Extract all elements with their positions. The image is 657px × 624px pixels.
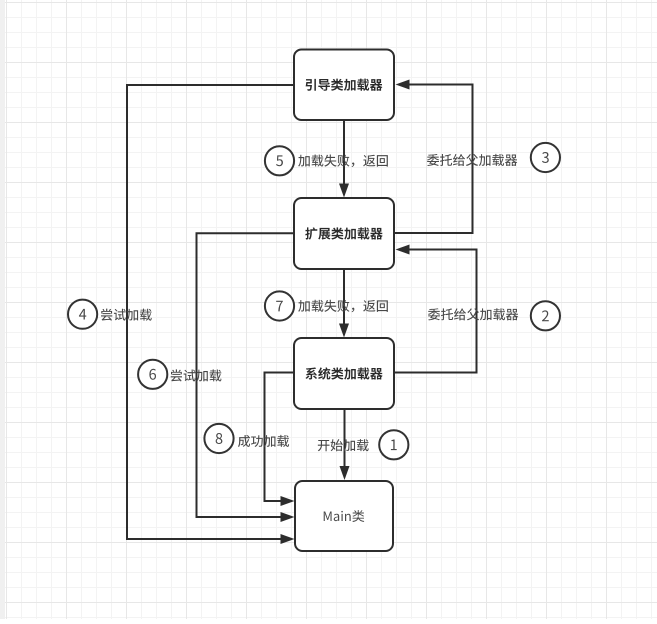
node label 7: circle 7 + 加载失败，返回: [265, 291, 388, 320]
box 扩展类加载器 (extension class loader): [294, 198, 394, 269]
node label 8: circle 8 + 成功加载: [204, 424, 289, 453]
wire arrow5 加载失败返回: 引导类加载器 bottom -> 扩展类加载器 top: [339, 120, 349, 198]
wire arrow6 尝试加载: 扩展类加载器 left -> down -> Main类: [197, 233, 295, 522]
node label 5: circle 5 + 加载失败，返回: [265, 146, 388, 175]
wire arrow1 开始加载: 系统类加载器 bottom -> Main类 top: [340, 409, 350, 480]
wire arrow7 加载失败返回: 扩展类加载器 bottom -> 系统类加载器 top: [339, 269, 349, 338]
wire arrow4 尝试加载: 引导类加载器 left -> down -> Main类: [127, 85, 295, 544]
box Main类 (Main class): [295, 481, 393, 551]
node label 3: 委托给父加载器 + circle 3: [427, 143, 560, 172]
node label 2: 委托给父加载器 + circle 2: [428, 301, 560, 330]
box 引导类加载器 (bootstrap class loader): [294, 50, 394, 121]
node label 1: 开始加载 + circle 1: [318, 430, 409, 459]
node label 4: circle 4 + 尝试加载: [68, 300, 152, 329]
node label 6: circle 6 + 尝试加载: [138, 360, 221, 389]
wire arrow8 成功加载: 系统类加载器 left -> down -> Main类: [265, 373, 295, 507]
wire arrow3 委托给父加载器: 扩展类加载器 right -> up -> 引导类加载器: [394, 80, 473, 234]
wire arrow2 委托给父加载器: 系统类加载器 right -> up -> 扩展类加载器: [394, 245, 477, 373]
box 系统类加载器 (system class loader): [294, 338, 394, 409]
